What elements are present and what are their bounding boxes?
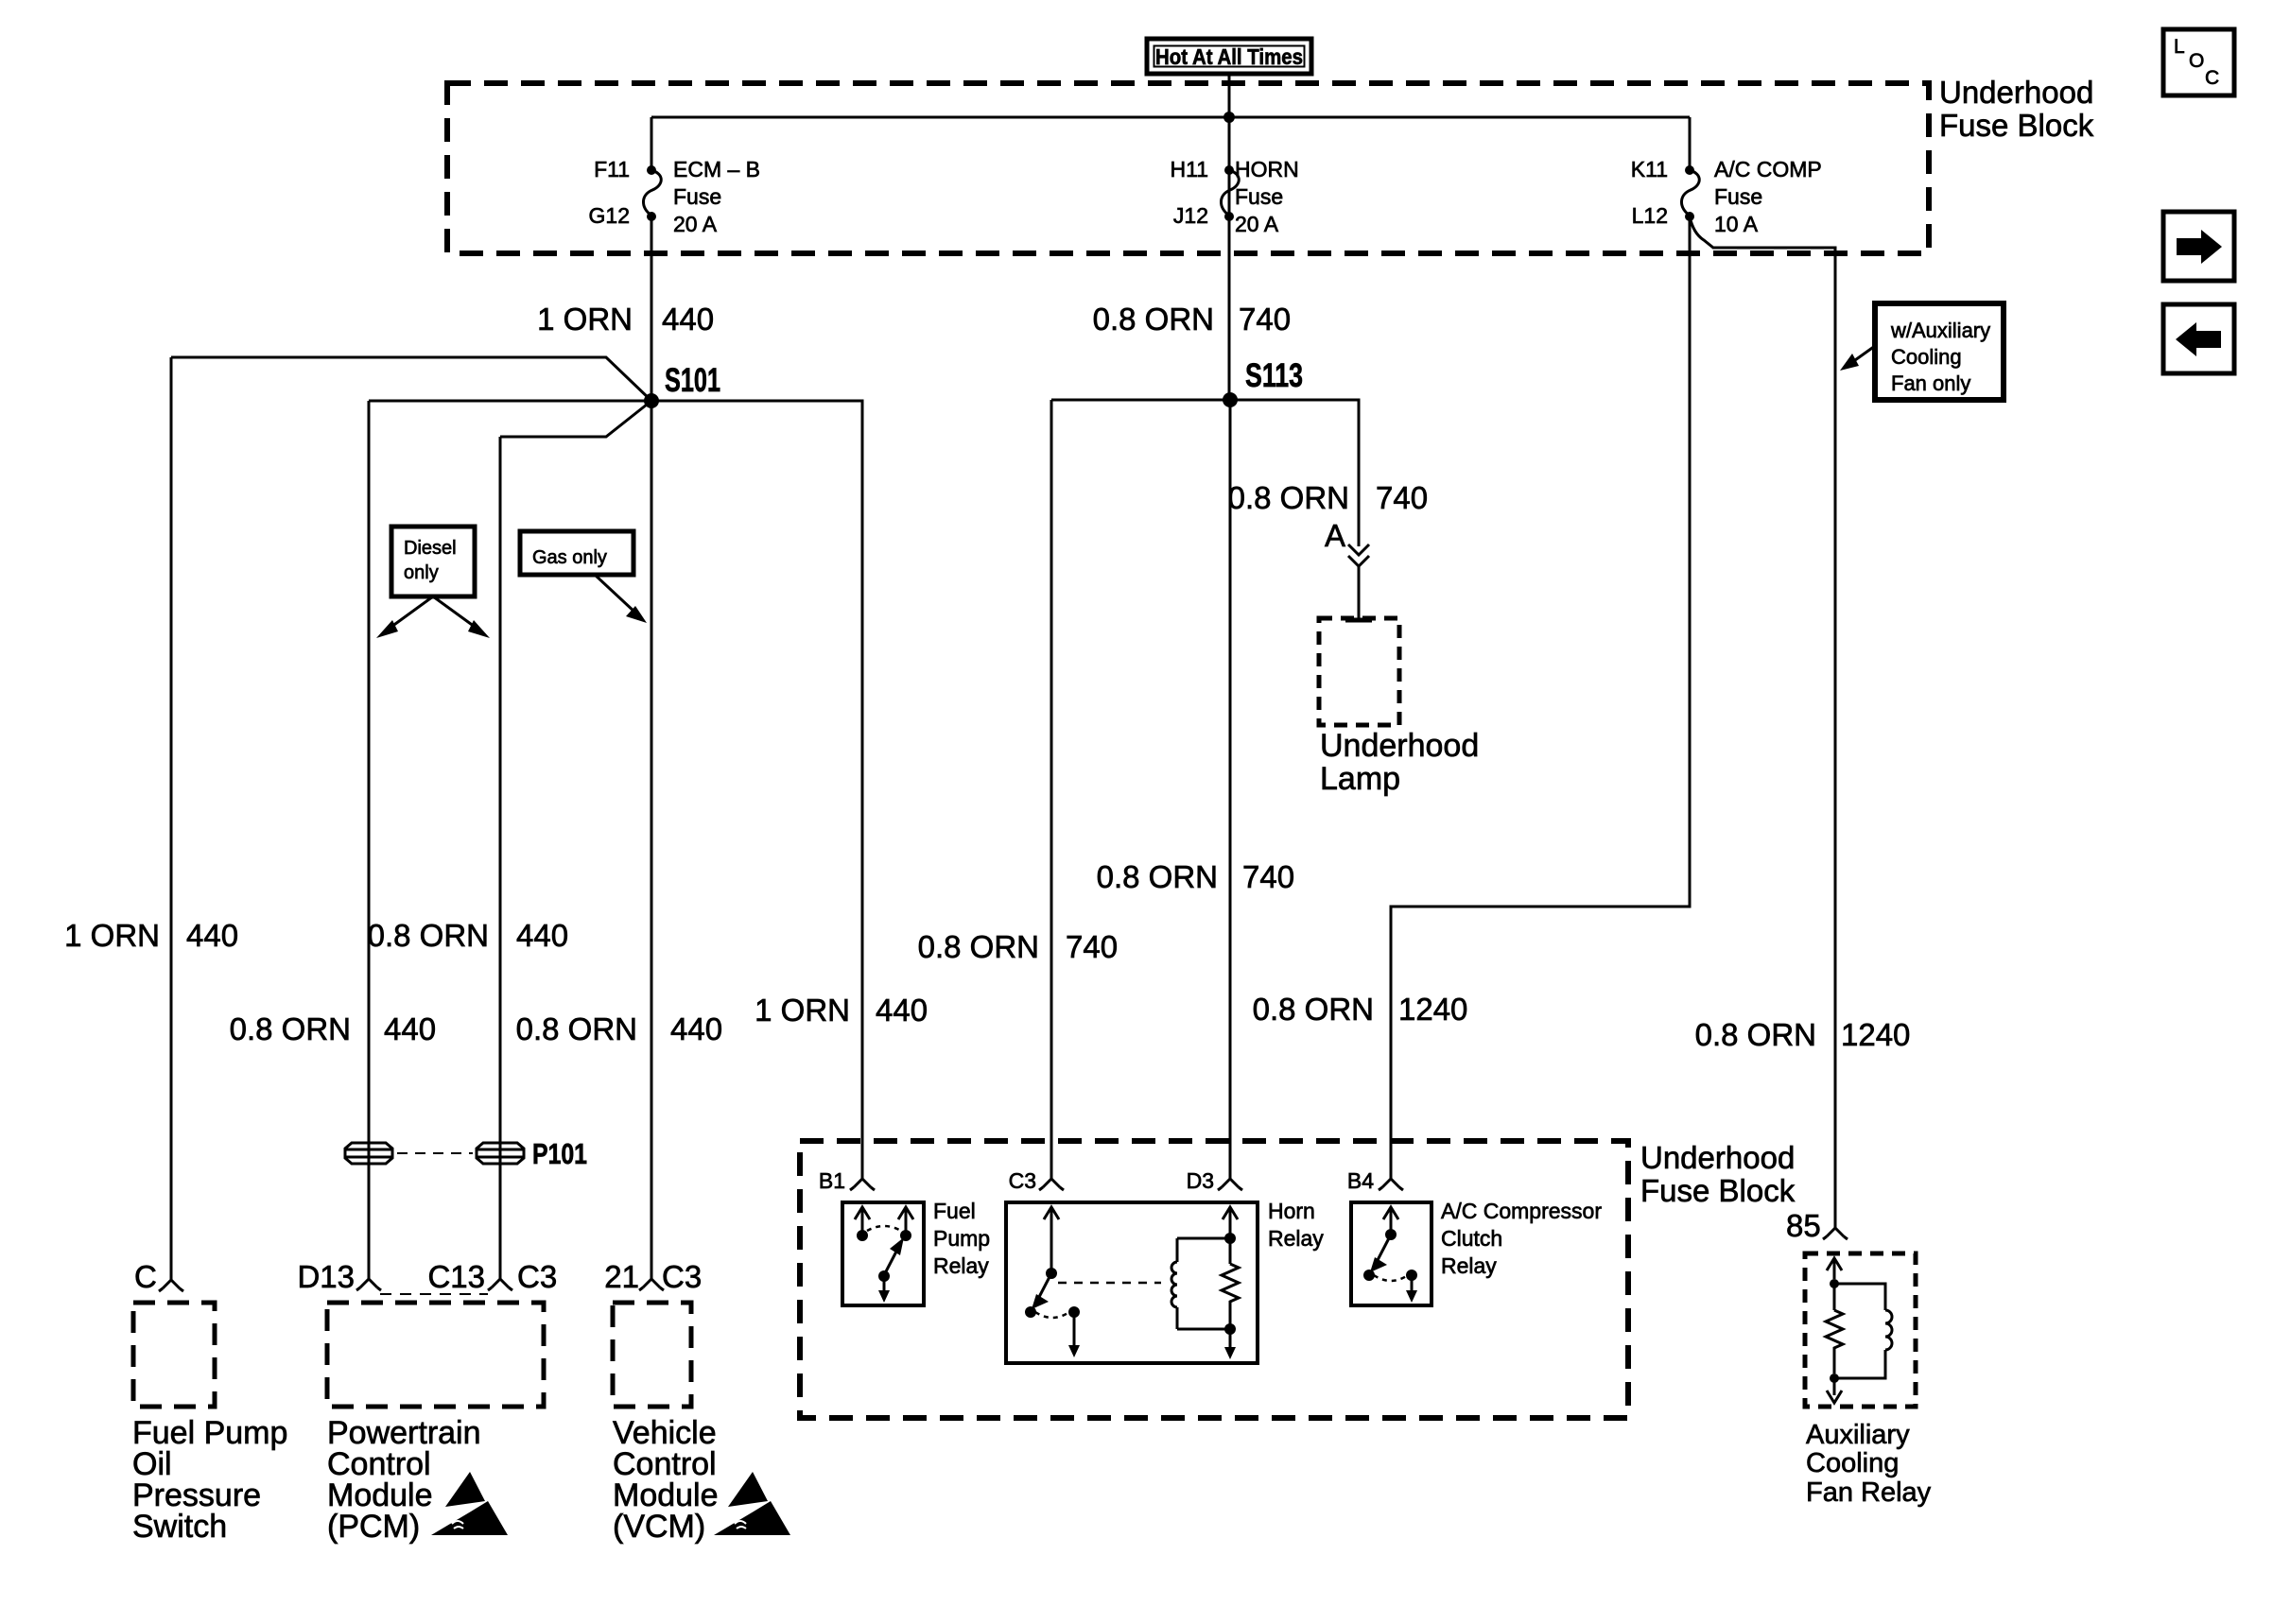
svg-text:B1: B1 (819, 1168, 845, 1193)
svg-text:B4: B4 (1347, 1168, 1374, 1193)
svg-text:Underhood: Underhood (1320, 728, 1479, 764)
svg-text:1 ORN: 1 ORN (537, 302, 633, 337)
svg-text:L12: L12 (1632, 203, 1668, 228)
svg-text:0.8 ORN: 0.8 ORN (1253, 992, 1374, 1027)
svg-text:440: 440 (186, 918, 238, 953)
svg-text:HORN: HORN (1235, 157, 1299, 181)
svg-text:Hot At All Times: Hot At All Times (1155, 44, 1303, 69)
svg-text:Cooling: Cooling (1806, 1448, 1899, 1478)
svg-text:Fuse Block: Fuse Block (1939, 108, 2094, 143)
svg-text:w/Auxiliary: w/Auxiliary (1890, 319, 1990, 342)
svg-text:K11: K11 (1631, 157, 1668, 181)
svg-text:C: C (134, 1259, 157, 1294)
svg-text:J12: J12 (1173, 203, 1208, 228)
svg-text:0.8 ORN: 0.8 ORN (918, 929, 1039, 964)
svg-text:0.8 ORN: 0.8 ORN (1228, 480, 1349, 515)
svg-text:Fan only: Fan only (1891, 371, 1970, 395)
svg-text:440: 440 (516, 918, 568, 953)
svg-text:F11: F11 (594, 157, 630, 181)
svg-text:only: only (404, 562, 439, 583)
svg-text:Clutch: Clutch (1441, 1226, 1502, 1251)
svg-text:Diesel: Diesel (404, 538, 457, 559)
svg-text:C: C (2205, 67, 2219, 89)
svg-text:G12: G12 (589, 203, 630, 228)
svg-text:740: 740 (1376, 480, 1428, 515)
svg-text:Underhood: Underhood (1640, 1140, 1795, 1175)
svg-text:20 A: 20 A (673, 212, 718, 236)
svg-text:C3: C3 (517, 1259, 557, 1294)
svg-text:A: A (1325, 518, 1345, 553)
svg-text:440: 440 (876, 993, 928, 1028)
svg-text:1240: 1240 (1841, 1017, 1910, 1052)
svg-text:740: 740 (1066, 929, 1118, 964)
svg-text:440: 440 (670, 1011, 722, 1046)
svg-text:Fan Relay: Fan Relay (1806, 1477, 1932, 1508)
svg-text:C3: C3 (1009, 1168, 1036, 1193)
svg-text:P101: P101 (532, 1137, 587, 1170)
svg-text:740: 740 (1239, 302, 1291, 337)
svg-text:Auxiliary: Auxiliary (1806, 1420, 1910, 1450)
svg-text:Relay: Relay (1441, 1253, 1497, 1278)
svg-text:Underhood: Underhood (1939, 75, 2093, 110)
svg-text:Cooling: Cooling (1891, 345, 1962, 369)
svg-text:D13: D13 (297, 1259, 355, 1294)
svg-text:Lamp: Lamp (1320, 761, 1400, 797)
svg-text:L: L (2174, 36, 2185, 58)
svg-text:C13: C13 (427, 1259, 485, 1294)
svg-text:0.8 ORN: 0.8 ORN (1093, 302, 1214, 337)
svg-text:(VCM): (VCM) (613, 1509, 705, 1545)
svg-text:O: O (2189, 50, 2204, 72)
svg-text:ECM – B: ECM – B (673, 157, 760, 181)
svg-text:0.8 ORN: 0.8 ORN (230, 1011, 351, 1046)
svg-text:A/C Compressor: A/C Compressor (1441, 1199, 1602, 1223)
svg-text:21: 21 (604, 1259, 639, 1294)
svg-text:20 A: 20 A (1235, 212, 1279, 236)
svg-text:S113: S113 (1245, 357, 1303, 394)
svg-text:0.8 ORN: 0.8 ORN (516, 1011, 637, 1046)
svg-text:Pump: Pump (933, 1226, 990, 1251)
svg-text:Relay: Relay (933, 1253, 989, 1278)
svg-text:Fuse: Fuse (1235, 184, 1283, 209)
svg-text:440: 440 (384, 1011, 436, 1046)
svg-text:Gas only: Gas only (532, 547, 607, 568)
svg-text:(PCM): (PCM) (327, 1509, 420, 1545)
svg-text:Relay: Relay (1268, 1226, 1324, 1251)
svg-text:440: 440 (662, 302, 714, 337)
svg-text:1240: 1240 (1398, 992, 1467, 1027)
svg-text:A/C COMP: A/C COMP (1714, 157, 1822, 181)
svg-text:740: 740 (1242, 859, 1294, 894)
svg-text:1 ORN: 1 ORN (64, 918, 160, 953)
svg-text:0.8 ORN: 0.8 ORN (1695, 1017, 1816, 1052)
svg-text:Fuel: Fuel (933, 1199, 976, 1223)
svg-text:0.8 ORN: 0.8 ORN (368, 918, 489, 953)
svg-text:10 A: 10 A (1714, 212, 1759, 236)
svg-text:85: 85 (1786, 1208, 1821, 1243)
svg-text:C3: C3 (662, 1259, 702, 1294)
svg-text:Fuse: Fuse (1714, 184, 1762, 209)
svg-text:H11: H11 (1171, 157, 1209, 181)
svg-text:Switch: Switch (132, 1509, 227, 1545)
svg-text:Fuse: Fuse (673, 184, 721, 209)
svg-text:0.8 ORN: 0.8 ORN (1097, 859, 1218, 894)
svg-text:Fuse Block: Fuse Block (1640, 1173, 1796, 1208)
svg-text:S101: S101 (665, 362, 720, 399)
svg-text:D3: D3 (1187, 1168, 1214, 1193)
svg-text:1 ORN: 1 ORN (755, 993, 850, 1028)
svg-text:Horn: Horn (1268, 1199, 1315, 1223)
